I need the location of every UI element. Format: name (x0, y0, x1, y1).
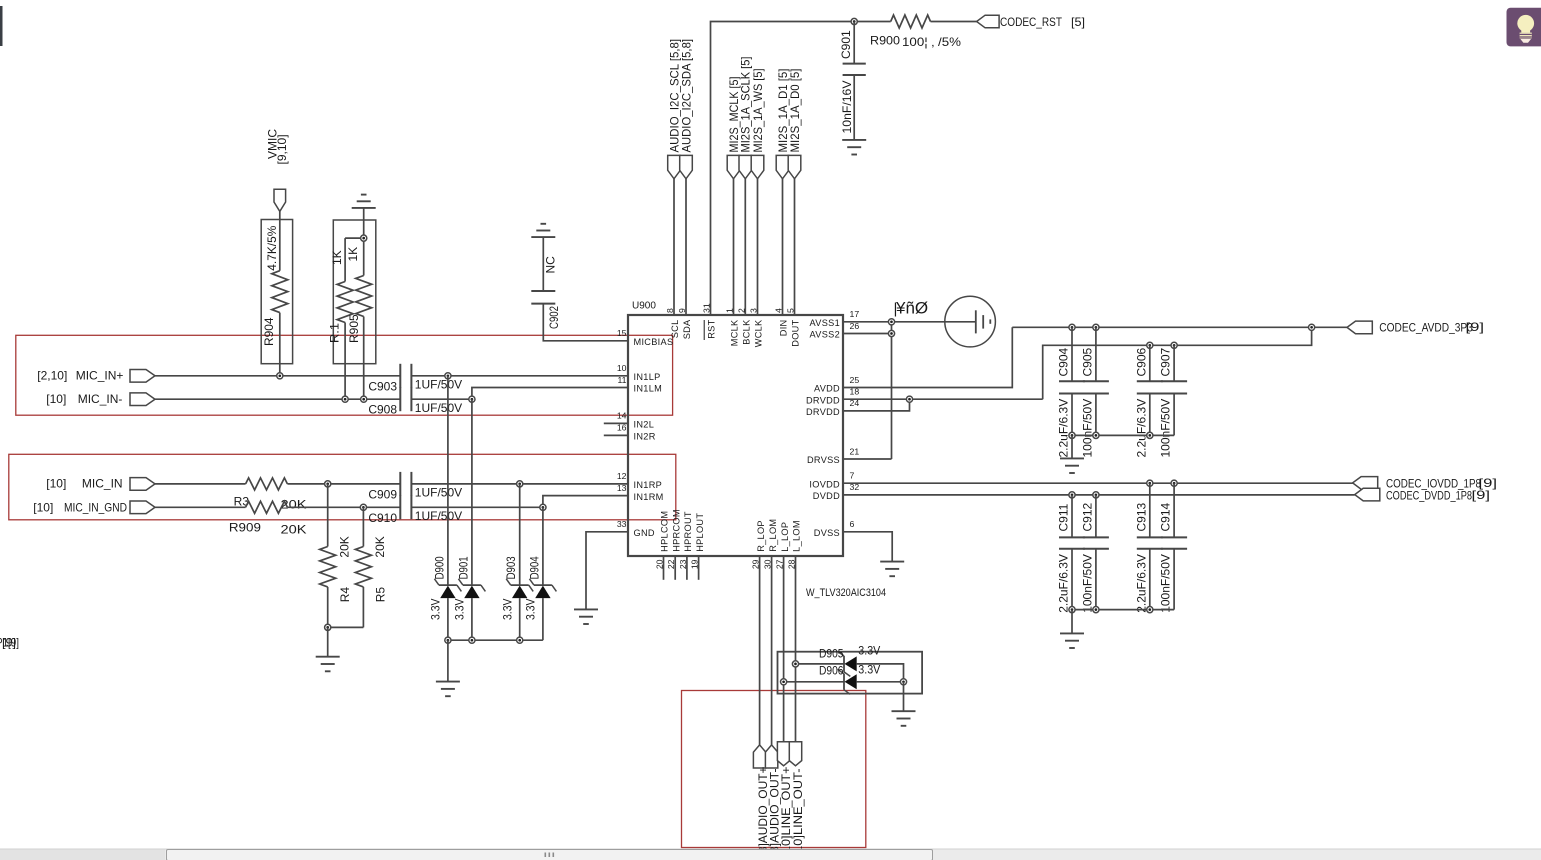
ui lightbulb button (1507, 8, 1541, 47)
wire AVSS1 net (843, 321, 976, 323)
svg-text:CODEC_RST: CODEC_RST (1000, 15, 1063, 29)
ground lower cap bank (1060, 633, 1084, 648)
svg-text:100nF/50V: 100nF/50V (1080, 399, 1094, 458)
wire D906 output (857, 681, 904, 683)
svg-text:D900: D900 (432, 556, 446, 579)
port flag MIC_IN_GND (130, 501, 155, 514)
svg-text:W_TLV320AIC3104: W_TLV320AIC3104 (806, 587, 886, 599)
wire HP output stub (698, 556, 700, 580)
port flag LINE_OUT+ (777, 742, 789, 766)
port flag CODEC_DVDD_1P8 (1355, 488, 1380, 501)
svg-text:DVSS: DVSS (814, 528, 840, 538)
wire C905 bottom (1095, 394, 1097, 436)
ground below C901 (842, 140, 866, 155)
wire HP output stub (663, 556, 665, 580)
svg-text:3.3V: 3.3V (501, 599, 515, 621)
svg-text:IOVDD: IOVDD (809, 479, 840, 489)
ui horizontal scrollbar thumb (167, 850, 933, 860)
svg-text:C907: C907 (1159, 347, 1173, 376)
wire HP output stub (686, 556, 688, 580)
chassis earth symbol (circled) (945, 296, 996, 347)
wire R.1 to MIC_IN- net (344, 323, 346, 400)
highlight box MIC_IN+/MIC_IN- net group (16, 335, 673, 415)
resistor R3 zigzag (246, 478, 288, 490)
junction zener rail (445, 637, 451, 643)
junction C912 top (1093, 492, 1099, 498)
wire MIC_IN- left segment (155, 398, 400, 400)
capacitor C910 (400, 495, 411, 519)
wire R904 to MIC_IN+ net (279, 313, 281, 376)
svg-text:[9]: [9] (1466, 320, 1485, 334)
capacitor C905 (1083, 381, 1109, 393)
svg-text:MICBIAS: MICBIAS (634, 337, 674, 347)
svg-text:HPLCOM: HPLCOM (660, 511, 670, 552)
svg-text:2.2uF/6.3V: 2.2uF/6.3V (1057, 399, 1071, 458)
junction D905/D906 join (900, 679, 906, 685)
wire to D900 (447, 376, 449, 585)
junction cap rail (1147, 432, 1153, 438)
wire D904 to bottom rail (542, 598, 544, 640)
wire R5 bottom (362, 587, 364, 628)
svg-text:AVSS1: AVSS1 (810, 318, 840, 328)
wire to C906 (1149, 345, 1151, 381)
wire R900 to CODEC_RST flag (931, 21, 977, 23)
svg-text:R5: R5 (374, 587, 388, 603)
wire C907 bottom (1173, 394, 1175, 436)
svg-text:2.2uF/6.3V: 2.2uF/6.3V (1134, 554, 1148, 613)
wire R_LOP to AUDIO_OUT+ (759, 556, 761, 745)
svg-text:IN2L: IN2L (634, 420, 655, 430)
wire cap rail to ground (1071, 610, 1073, 634)
svg-text:HPRCOM: HPRCOM (671, 509, 681, 552)
wire DRVDD rail (1043, 327, 1312, 399)
capacitor C909 (400, 472, 411, 496)
component frame around R.1/R905 (333, 220, 376, 364)
svg-text:4.7K/5%: 4.7K/5% (265, 225, 279, 270)
svg-text:3.3V: 3.3V (453, 599, 467, 621)
junction C913 top (1147, 480, 1153, 486)
wire MIC_IN_GND left segment (155, 506, 246, 508)
junction zener rail (469, 637, 475, 643)
svg-text:[9,10]: [9,10] (275, 134, 289, 164)
svg-text:[10]: [10] (46, 477, 66, 491)
ui horizontal scrollbar track (0, 849, 1541, 860)
wire RST net to R900 (711, 22, 891, 316)
junction cap rail (1069, 432, 1075, 438)
port flag AUDIO_I2C_SDA (680, 155, 693, 178)
wire to C901 top (853, 22, 855, 64)
wire L_LOP to LINE_OUT+ (783, 556, 785, 742)
wire to C911 (1071, 495, 1073, 538)
wire C904 bottom (1071, 394, 1073, 436)
wire MIC_IN_GND right segment (411, 506, 543, 508)
wire MIC_IN mid segment (287, 483, 400, 485)
wire MI2S_1A_SCLK net (744, 179, 746, 315)
port flag MI2S_MCLK (727, 155, 740, 178)
svg-text:[10]: [10] (46, 392, 66, 406)
svg-text:R4: R4 (338, 587, 352, 603)
wire AVSS2 net (843, 333, 892, 335)
junction R5 top (360, 504, 366, 510)
svg-text:D903: D903 (504, 556, 518, 579)
wire DRVDD pin24 jog (843, 399, 910, 411)
zener diode D903 (506, 579, 533, 598)
ground pin 33 (574, 609, 598, 624)
junction C906 top (1147, 342, 1153, 348)
svg-text:WCLK: WCLK (754, 319, 764, 347)
wire R4 bottom (327, 587, 329, 628)
zener diode D901 (458, 579, 485, 598)
svg-text:HPROUT: HPROUT (683, 511, 693, 552)
svg-text:1UF/50V: 1UF/50V (415, 509, 462, 523)
wire D900 to bottom rail (447, 598, 449, 640)
resistor R904 zigzag (272, 271, 288, 313)
svg-text:DRVSS: DRVSS (807, 455, 840, 465)
wire D905 output (857, 664, 904, 682)
resistor R905 zigzag (356, 276, 372, 317)
svg-text:3.3V: 3.3V (429, 599, 443, 621)
zener diode D906 (838, 669, 857, 694)
port flag MIC_IN (130, 478, 155, 491)
svg-text:C909: C909 (368, 487, 397, 501)
wire to D903 (519, 484, 521, 585)
svg-text:C914: C914 (1159, 502, 1173, 531)
wire MI2S_1A_WS net (757, 179, 759, 315)
wire R4/R5 join (328, 626, 364, 628)
ground below R4/R5 (316, 657, 340, 672)
zener diode D900 (434, 579, 461, 598)
wire MI2S_1A_D0 net (794, 179, 796, 315)
junction zener rail (517, 637, 523, 643)
svg-text:100nF/50V: 100nF/50V (1080, 554, 1094, 613)
svg-text:R_LOP: R_LOP (756, 520, 766, 552)
port flag MI2S_1A_WS (751, 155, 764, 178)
junction C911 top (1069, 492, 1075, 498)
port flag MI2S_1A_D0 (788, 155, 801, 178)
svg-text:C903: C903 (368, 379, 397, 393)
svg-text:[9]: [9] (1472, 488, 1491, 502)
svg-text:R905: R905 (347, 314, 361, 343)
resistor R5 zigzag (355, 547, 371, 587)
junction C907 top (1171, 342, 1177, 348)
svg-text:L_LOM: L_LOM (792, 520, 802, 552)
capacitor C908 (400, 387, 411, 411)
junction RST/C901 node (851, 18, 857, 24)
svg-text:DRVDD: DRVDD (806, 395, 840, 405)
wire C912 bottom (1095, 549, 1097, 610)
junction D905 tap (792, 661, 798, 667)
wire to D906 (784, 681, 844, 683)
svg-text:21: 21 (850, 446, 860, 456)
junction D900 tap (445, 373, 451, 379)
svg-text:DOUT: DOUT (791, 319, 801, 346)
wire C914 bottom (1173, 549, 1175, 610)
svg-text:AVDD: AVDD (814, 384, 840, 394)
svg-text:R.1: R.1 (328, 323, 342, 343)
RST overline (703, 320, 705, 340)
svg-text:1K: 1K (346, 247, 360, 262)
wire to R.1 (344, 238, 346, 281)
wire R.1 top jog (345, 237, 364, 239)
svg-text:D906: D906 (819, 664, 844, 678)
port flag AUDIO_OUT+ (753, 745, 765, 768)
junction R904/MIC_IN+ (277, 373, 283, 379)
svg-text:D901: D901 (456, 556, 470, 579)
resistor R909 zigzag (246, 501, 288, 513)
svg-text:C906: C906 (1134, 347, 1148, 376)
junction D904 tap (540, 504, 546, 510)
port flag MI2S_1A_D1 (776, 155, 789, 178)
wire to C914 (1173, 483, 1175, 537)
svg-text:100¦ ‚ /5%: 100¦ ‚ /5% (902, 35, 961, 49)
svg-text:IN1LP: IN1LP (634, 372, 661, 382)
svg-text:BCLK: BCLK (742, 319, 752, 345)
svg-text:IN1RM: IN1RM (634, 492, 664, 502)
port flag MIC_IN+ (130, 370, 155, 383)
ui left edge bar (0, 6, 3, 46)
junction C905 top (1093, 324, 1099, 330)
svg-text:[10]LINE_OUT-: [10]LINE_OUT- (791, 768, 805, 856)
wire lower cap ground rail (1072, 609, 1174, 611)
capacitor C901 (843, 64, 866, 75)
wire D903 to bottom rail (519, 598, 521, 640)
svg-text:IN1LM: IN1LM (634, 384, 663, 394)
ground above C902 (531, 224, 555, 237)
junction R4 top (325, 481, 331, 487)
wire C906 bottom (1149, 394, 1151, 436)
svg-text:AVSS2: AVSS2 (810, 330, 840, 340)
svg-text:[9]: [9] (2, 636, 16, 650)
svg-text:C910: C910 (368, 511, 397, 525)
ground above R905 (352, 195, 376, 208)
junction R.1/R905 top (361, 235, 367, 241)
ground upper cap bank (1060, 458, 1084, 473)
port flag AUDIO_I2C_SCL (668, 155, 681, 178)
svg-text:SDA: SDA (682, 319, 692, 339)
wire MIC_IN- mid segment (411, 398, 472, 400)
wire D901 to bottom rail (471, 598, 473, 640)
svg-text:C902: C902 (547, 306, 561, 329)
svg-text:RST: RST (707, 319, 717, 338)
junction DRVDD pins (906, 396, 912, 402)
wire L_LOM to LINE_OUT- (795, 556, 797, 742)
svg-text:100nF/50V: 100nF/50V (1159, 399, 1173, 458)
wire AVSS riser (891, 322, 893, 459)
svg-text:CODEC_AVDD_3P3: CODEC_AVDD_3P3 (1379, 321, 1473, 335)
svg-text:DVDD: DVDD (813, 491, 840, 501)
ground below D905/D906 (892, 711, 916, 726)
svg-text:100nF/50V: 100nF/50V (1159, 554, 1173, 613)
svg-text:20K: 20K (281, 523, 307, 537)
wire jog to pin 13 (543, 496, 628, 508)
svg-text:6: 6 (850, 519, 855, 529)
svg-text:U900: U900 (632, 301, 656, 312)
wire to C905 (1095, 327, 1097, 381)
svg-text:2.2uF/6.3V: 2.2uF/6.3V (1057, 554, 1071, 613)
wire diodes to ground (903, 682, 905, 711)
wire MIC_IN to R4 (327, 484, 329, 547)
junction D901 tap (469, 396, 475, 402)
wire cap rail to ground (1071, 435, 1073, 458)
wire upper cap ground rail (1072, 434, 1174, 436)
svg-text:15: 15 (617, 328, 627, 338)
svg-text:L_LOP: L_LOP (780, 522, 790, 552)
wire DVDD net (843, 494, 1355, 496)
svg-text:20K: 20K (338, 536, 352, 557)
wire MIC_IN- jog to pin 11 (472, 388, 628, 400)
port flag LINE_OUT- (789, 742, 801, 766)
wire to C907 (1173, 345, 1175, 381)
port flag VMIC (274, 189, 286, 211)
wire C901 to ground (853, 75, 855, 140)
wire C913 bottom (1149, 549, 1151, 610)
port flag AUDIO_OUT- (765, 745, 777, 768)
wire AUDIO_I2C_SDA net (685, 179, 687, 315)
svg-text:3.3V: 3.3V (524, 599, 538, 621)
svg-text:[10]: [10] (33, 500, 53, 514)
junction R4/R5 bottom (325, 624, 331, 630)
wire C911 bottom (1071, 549, 1073, 610)
svg-text:DRVDD: DRVDD (806, 407, 840, 417)
svg-text:NC: NC (544, 256, 558, 274)
svg-text:MIC_IN_GND: MIC_IN_GND (64, 500, 127, 514)
svg-text:R904: R904 (262, 317, 276, 346)
svg-text:7: 7 (850, 471, 855, 481)
svg-text:20K: 20K (373, 536, 387, 557)
junction cap rail (1093, 607, 1099, 613)
wire to D901 (471, 399, 473, 585)
component frame around R904 (261, 220, 292, 364)
svg-text:DIN: DIN (779, 320, 789, 337)
wire MIC_IN to pin 12 (411, 483, 628, 485)
wire AUDIO_I2C_SCL net (673, 179, 675, 315)
wire zener bottom rail (448, 639, 543, 641)
highlight box AUDIO_OUT/LINE_OUT group (682, 691, 866, 848)
wire GND pin 33 (586, 532, 628, 610)
junction D906 tap (781, 679, 787, 685)
port flag MI2S_1A_SCLK (739, 155, 752, 178)
junction cap rail (1069, 607, 1075, 613)
svg-text:1UF/50V: 1UF/50V (415, 377, 462, 391)
wire MIC_IN+ to pin 10 (411, 375, 628, 377)
wire to C913 (1149, 483, 1151, 537)
wire R905 to MIC_IN- net (363, 317, 365, 400)
port flag MIC_IN- (130, 393, 155, 406)
svg-text:14: 14 (617, 411, 627, 421)
wire HP output stub (674, 556, 676, 580)
junction C914 top (1171, 480, 1177, 486)
wire VMIC to R904 (279, 211, 281, 270)
svg-text:17: 17 (850, 309, 860, 319)
svg-text:[5]: [5] (1071, 15, 1085, 29)
wire ground to R905 (363, 208, 365, 276)
svg-text:AUDIO_I2C_SDA [5,8]: AUDIO_I2C_SDA [5,8] (679, 39, 693, 153)
svg-text:MIC_IN-: MIC_IN- (78, 392, 123, 406)
junction R905 bottom (361, 396, 367, 402)
wire zener rail to ground (447, 640, 449, 681)
ui bottom-left corner mark (0, 851, 3, 856)
capacitor C902 (531, 291, 555, 304)
port flag CODEC_IOVDD_1P8 (1353, 477, 1378, 490)
junction C904 top (1069, 324, 1075, 330)
wire to C904 (1071, 327, 1073, 381)
svg-text:MIC_IN+: MIC_IN+ (76, 369, 124, 383)
wire MI2S_1A_D1 net (782, 179, 784, 315)
capacitor C913 (1137, 537, 1163, 548)
svg-text:MI2S_1A_D0 [5]: MI2S_1A_D0 [5] (788, 69, 802, 153)
capacitor C904 (1059, 381, 1085, 393)
svg-text:IN1RP: IN1RP (634, 480, 663, 490)
resistor R.1 zigzag (337, 282, 353, 323)
wire MIC_IN left segment (155, 483, 246, 485)
svg-text:33: 33 (617, 519, 627, 529)
wire DRVSS net (843, 458, 892, 460)
zener diode D905 (838, 651, 857, 676)
wire stub pin 16 IN2R (604, 434, 628, 436)
resistor R900 zigzag (891, 15, 931, 28)
capacitor C903 (400, 364, 411, 388)
wire IOVDD net (843, 482, 1353, 484)
capacitor C912 (1083, 537, 1109, 548)
svg-text:|: | (894, 301, 898, 318)
svg-text:1UF/50V: 1UF/50V (415, 401, 462, 415)
wire C902 to MICBIAS pin 15 (543, 304, 628, 341)
junction cap rail (1147, 607, 1153, 613)
wire DRVDD pin18 (843, 398, 1043, 400)
resistor R4 zigzag (320, 547, 336, 587)
wire AVDD rail (1012, 326, 1347, 328)
wire R_LOM to AUDIO_OUT- (771, 556, 773, 745)
svg-text:D905: D905 (819, 646, 844, 660)
junction cap rail (1093, 432, 1099, 438)
junction DRVDD joins AVDD rail (1309, 324, 1315, 330)
svg-text:D904: D904 (527, 556, 541, 579)
capacitor C907 (1161, 381, 1187, 393)
svg-text:GND: GND (634, 528, 655, 538)
ground below zeners (436, 682, 460, 697)
svg-text:HPLOUT: HPLOUT (695, 513, 705, 552)
component frame around D905/D906 (778, 652, 923, 694)
svg-text:C912: C912 (1080, 502, 1094, 531)
svg-text:[2,10]: [2,10] (37, 369, 67, 383)
svg-text:R909: R909 (229, 521, 261, 535)
svg-text:MIC_IN: MIC_IN (82, 477, 123, 491)
svg-text:2.2uF/6.3V: 2.2uF/6.3V (1134, 399, 1148, 458)
wire MI2S_MCLK net (733, 179, 735, 315)
wire MIC_IN_GND mid segment (287, 506, 400, 508)
wire to D904 (542, 507, 544, 585)
svg-text:C904: C904 (1057, 347, 1071, 376)
svg-text:1K: 1K (330, 250, 344, 265)
wire MIC_IN_GND to R5 (362, 507, 364, 546)
svg-text:25: 25 (850, 375, 860, 385)
capacitor C914 (1161, 537, 1187, 548)
wire to D905 (796, 663, 845, 665)
svg-text:R900: R900 (870, 34, 900, 48)
junction AVSS2 (888, 330, 894, 336)
svg-text:MI2S_1A_WS [5]: MI2S_1A_WS [5] (751, 69, 765, 153)
svg-text:3.3V: 3.3V (858, 663, 880, 677)
junction D903 tap (517, 481, 523, 487)
svg-text:10: 10 (617, 363, 627, 373)
zener diode D904 (529, 579, 556, 598)
svg-text:C908: C908 (368, 403, 397, 417)
svg-text:C913: C913 (1134, 502, 1148, 531)
svg-text:R_LOM: R_LOM (768, 519, 778, 552)
wire DVSS to ground (843, 532, 892, 562)
capacitor C906 (1137, 381, 1163, 393)
svg-text:MCLK: MCLK (730, 319, 740, 346)
